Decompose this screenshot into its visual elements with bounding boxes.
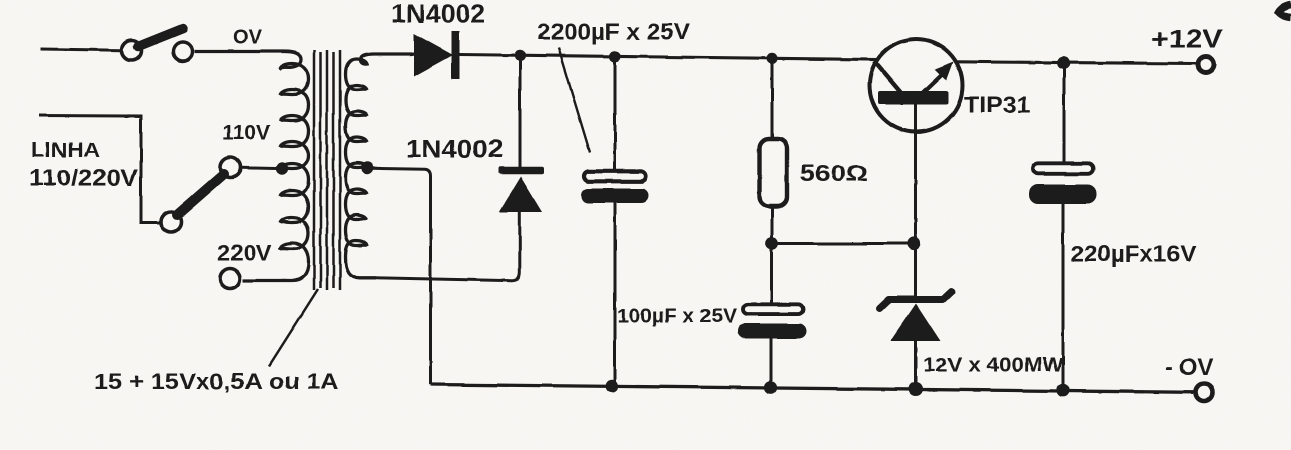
capacitor C2 negative plate xyxy=(738,324,807,339)
top rail: secondary to D1 xyxy=(408,53,416,56)
wire Q1 base lead xyxy=(914,104,917,244)
diode D1 cathode bar xyxy=(452,31,460,79)
switch S2 pole contact xyxy=(161,212,181,232)
transistor Q1 emitter arrowhead xyxy=(935,62,954,81)
wire R1 top lead xyxy=(771,58,774,140)
wire C3 bottom lead xyxy=(1062,204,1065,391)
svg-text:12V x 400MW: 12V x 400MW xyxy=(923,354,1064,377)
svg-text:15 + 15Vx0,5A ou 1A: 15 + 15Vx0,5A ou 1A xyxy=(94,369,339,394)
resistor R1 560 ohm xyxy=(760,139,788,206)
node C3 bottom xyxy=(1056,384,1069,397)
svg-text:110/220V: 110/220V xyxy=(29,165,139,191)
transistor Q1 base bar xyxy=(878,91,948,105)
zener Z1 cathode bar with bent ends xyxy=(880,292,952,309)
node C1 top xyxy=(609,51,620,62)
wire Z1 bottom lead xyxy=(914,341,917,390)
capacitor C2 100uF positive plate xyxy=(743,304,803,314)
terminal +12V xyxy=(1198,57,1214,73)
node base / zener xyxy=(907,237,920,250)
node 110V tap on primary xyxy=(276,162,288,174)
wire R1 bottom lead xyxy=(771,206,774,244)
transistor Q1 TIP31 body circle xyxy=(870,39,963,132)
wire base node horizontal xyxy=(772,242,914,245)
wire S1 to transformer 0V tap + transformer T1 primary winding xyxy=(194,52,309,281)
wire mains input LINHA bracket xyxy=(39,116,161,223)
zener Z1 triangle xyxy=(891,304,941,342)
node C3 top xyxy=(1057,57,1070,70)
svg-text:2200µF x 25V: 2200µF x 25V xyxy=(537,19,691,45)
wire S2 to 110V tap xyxy=(241,166,277,170)
svg-text:220µFx16V: 220µFx16V xyxy=(1071,241,1197,267)
transformer T1 secondary winding xyxy=(346,54,413,278)
svg-text:220V: 220V xyxy=(217,241,272,266)
capacitor C3 220uF positive plate xyxy=(1033,163,1093,174)
node R1 top xyxy=(766,53,777,64)
svg-text:1N4002: 1N4002 xyxy=(406,136,503,164)
switch S1 throw contact xyxy=(173,42,192,61)
capacitor C3 negative plate xyxy=(1029,185,1097,205)
wire C2 top lead xyxy=(770,244,773,305)
terminal -0V xyxy=(1196,384,1213,401)
wire top rail D1 to Q1 collector xyxy=(459,55,877,60)
transformer T1 core xyxy=(314,50,340,290)
svg-text:+12V: +12V xyxy=(1151,24,1224,54)
node Z1 bottom xyxy=(909,382,923,396)
svg-text:100µF x 25V: 100µF x 25V xyxy=(617,305,737,328)
wire C3 top lead xyxy=(1063,63,1066,163)
svg-text:LINHA: LINHA xyxy=(31,138,100,162)
wire secondary bottom to D2 anode xyxy=(376,212,520,281)
wire center tap to ground rail xyxy=(371,168,431,384)
svg-text:TIP31: TIP31 xyxy=(964,92,1031,118)
svg-text:- OV: - OV xyxy=(1165,354,1213,381)
terminal 220V xyxy=(220,269,240,289)
wire C1 bottom lead xyxy=(614,203,617,386)
diode D2 cathode bar xyxy=(499,167,545,174)
capacitor C1 2200uF positive plate xyxy=(584,171,646,181)
capacitor C1 negative plate xyxy=(581,189,649,204)
node rectifier output / D2 cathode xyxy=(515,50,526,61)
svg-text:OV: OV xyxy=(233,26,262,49)
switch S2 throw contact xyxy=(221,158,241,178)
node secondary center tap xyxy=(361,162,373,174)
bottom rail xyxy=(431,385,1195,393)
node C2 bottom xyxy=(764,381,777,394)
diode D2 1N4002 triangle xyxy=(499,177,542,213)
transistor Q1 collector line xyxy=(874,61,902,94)
svg-text:560Ω: 560Ω xyxy=(800,160,868,186)
switch S2 lever xyxy=(177,174,224,215)
transistor Q1 emitter line xyxy=(922,73,944,94)
wire mains input top-left xyxy=(41,49,122,50)
wire top rail Q1 emitter to +12V terminal xyxy=(955,62,1196,64)
node C1 bottom xyxy=(606,380,619,393)
wire C1 top lead xyxy=(614,56,617,170)
svg-text:110V: 110V xyxy=(222,122,270,145)
pointer line to transformer label xyxy=(269,289,318,366)
wire D2 cathode lead xyxy=(519,55,522,167)
diode D1 1N4002 triangle xyxy=(414,34,453,77)
svg-text:1N4002: 1N4002 xyxy=(391,1,485,29)
switch S1 pole contact xyxy=(122,41,142,61)
pointer line 2200uF label to C1 xyxy=(559,48,591,153)
switch S1 lever xyxy=(138,29,183,47)
page number fragment top-right corner xyxy=(1279,5,1291,18)
wire C2 bottom lead xyxy=(770,338,773,388)
wire zener Z1 top lead xyxy=(914,244,917,298)
node R1 bottom / C2 top xyxy=(766,237,779,250)
